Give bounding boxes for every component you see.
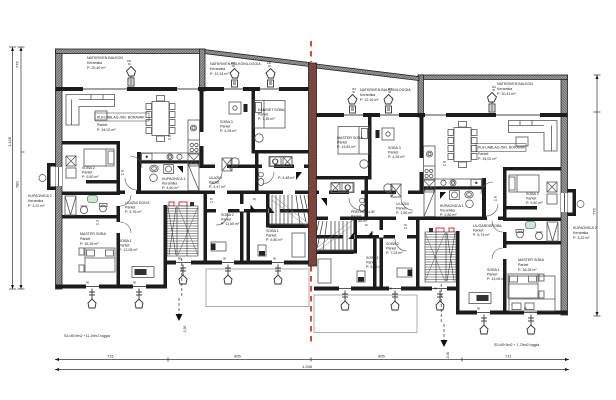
svg-text:P: 1,85 m²: P: 1,85 m² xyxy=(351,219,368,223)
svg-text:90: 90 xyxy=(133,281,137,285)
svg-text:KUH./ABLAG./DN. BORAVAK: KUH./ABLAG./DN. BORAVAK xyxy=(478,146,526,150)
svg-text:Parket: Parket xyxy=(518,263,528,267)
svg-text:P: 4,28 m²: P: 4,28 m² xyxy=(220,129,237,133)
svg-text:P: 4,48 m²: P: 4,48 m² xyxy=(278,176,295,180)
svg-text:SOBA 2: SOBA 2 xyxy=(526,192,539,196)
svg-text:P: 4,60 m²: P: 4,60 m² xyxy=(162,186,179,190)
svg-text:S2=89,9m2 +11,19m2 loggia: S2=89,9m2 +11,19m2 loggia xyxy=(64,334,110,338)
svg-text:Parket: Parket xyxy=(119,244,129,248)
svg-text:SOBA 1: SOBA 1 xyxy=(366,256,379,260)
svg-text:P: 11,50 m²: P: 11,50 m² xyxy=(221,222,240,226)
svg-text:P: 7,24 m²: P: 7,24 m² xyxy=(386,251,403,255)
svg-text:Parket: Parket xyxy=(386,247,396,251)
svg-text:1.245: 1.245 xyxy=(302,364,313,369)
svg-text:776: 776 xyxy=(15,61,20,68)
svg-text:Parket: Parket xyxy=(125,206,135,210)
svg-text:Keramika: Keramika xyxy=(87,61,102,65)
svg-text:SOBA 1: SOBA 1 xyxy=(119,239,132,243)
svg-text:P: 3,47 m²: P: 3,47 m² xyxy=(209,185,226,189)
svg-text:P: 6,74 m²: P: 6,74 m² xyxy=(473,233,490,237)
svg-text:P: 7,35 m²: P: 7,35 m² xyxy=(258,117,275,121)
svg-text:P: 9,50 m²: P: 9,50 m² xyxy=(526,201,543,205)
svg-text:P: 16,28 m²: P: 16,28 m² xyxy=(518,268,537,272)
svg-text:Keramika: Keramika xyxy=(497,87,512,91)
svg-text:Parket: Parket xyxy=(266,234,276,238)
svg-text:NATKRIVEN BALKON: NATKRIVEN BALKON xyxy=(87,56,123,60)
svg-text:Keramika: Keramika xyxy=(210,67,225,71)
svg-text:Parket: Parket xyxy=(478,152,488,156)
svg-text:Keramika: Keramika xyxy=(573,231,588,235)
svg-text:Parket: Parket xyxy=(526,197,536,201)
svg-text:90: 90 xyxy=(524,307,528,311)
svg-text:KUH./ABLAG./DN. BORAVAK: KUH./ABLAG./DN. BORAVAK xyxy=(97,116,145,120)
svg-text:Parket: Parket xyxy=(388,151,398,155)
svg-text:SOBA 2: SOBA 2 xyxy=(386,242,399,246)
svg-text:P: 12,34 m²: P: 12,34 m² xyxy=(210,72,229,76)
svg-text:MASTER SOBA: MASTER SOBA xyxy=(337,136,364,140)
svg-text:P: 20,40 m²: P: 20,40 m² xyxy=(87,66,106,70)
svg-text:MASTER SOBA: MASTER SOBA xyxy=(518,258,545,262)
svg-text:Parket: Parket xyxy=(221,218,231,222)
svg-text:-0,90: -0,90 xyxy=(446,352,450,359)
svg-text:SOBA 1: SOBA 1 xyxy=(487,268,500,272)
svg-text:P: 3,22 m²: P: 3,22 m² xyxy=(573,236,590,240)
svg-text:P: 13,83 m²: P: 13,83 m² xyxy=(337,145,356,149)
svg-text:P: 34,02 m²: P: 34,02 m² xyxy=(478,157,497,161)
svg-text:PREDSOBLJE: PREDSOBLJE xyxy=(351,210,375,214)
svg-text:Parket: Parket xyxy=(366,261,376,265)
svg-text:Parket: Parket xyxy=(97,123,107,127)
svg-text:Parket: Parket xyxy=(82,171,92,175)
svg-text:Keramika: Keramika xyxy=(440,209,455,213)
svg-text:P: 13,06 m²: P: 13,06 m² xyxy=(487,277,506,281)
svg-text:711: 711 xyxy=(505,354,512,359)
svg-text:P: 2,80 m²: P: 2,80 m² xyxy=(440,213,457,217)
svg-text:Parket: Parket xyxy=(220,125,230,129)
svg-text:Parket: Parket xyxy=(80,237,90,241)
svg-text:90: 90 xyxy=(178,257,182,261)
svg-text:P: 34,02 m²: P: 34,02 m² xyxy=(97,128,116,132)
svg-text:P: 1,50 m²: P: 1,50 m² xyxy=(396,211,413,215)
svg-text:ULAZNI: ULAZNI xyxy=(396,202,409,206)
svg-text:P: 12,16 m²: P: 12,16 m² xyxy=(360,98,379,102)
svg-text:905: 905 xyxy=(234,354,241,359)
svg-text:P: 9,08 m²: P: 9,08 m² xyxy=(366,265,383,269)
svg-text:NATKRIVEN BALKON/LOGGIA: NATKRIVEN BALKON/LOGGIA xyxy=(360,88,411,92)
svg-text:Parket: Parket xyxy=(473,229,483,233)
svg-text:KUPAONICA 2: KUPAONICA 2 xyxy=(573,226,597,230)
svg-text:S2=89,9m2 + 1,79m2 loggia: S2=89,9m2 + 1,79m2 loggia xyxy=(494,343,539,347)
svg-text:715: 715 xyxy=(107,354,114,359)
svg-text:NATKRIVEN BALKON: NATKRIVEN BALKON xyxy=(497,82,533,86)
svg-text:KUPAONICA 2: KUPAONICA 2 xyxy=(28,194,52,198)
svg-text:P: 13,06 m²: P: 13,06 m² xyxy=(119,248,138,252)
svg-text:P: 16,28 m²: P: 16,28 m² xyxy=(80,242,99,246)
svg-text:MASTER SOBA: MASTER SOBA xyxy=(80,232,107,236)
svg-text:P: 5,76 m²: P: 5,76 m² xyxy=(125,210,142,214)
svg-text:P: 9,50 m²: P: 9,50 m² xyxy=(82,175,99,179)
svg-text:SOBA 2: SOBA 2 xyxy=(82,166,95,170)
svg-text:KABINET SOBA: KABINET SOBA xyxy=(258,108,285,112)
svg-text:SOBA 1: SOBA 1 xyxy=(266,229,279,233)
svg-text:Parket: Parket xyxy=(351,215,361,219)
svg-text:90: 90 xyxy=(273,257,277,261)
svg-text:P: 9,80 m²: P: 9,80 m² xyxy=(266,238,283,242)
svg-text:90: 90 xyxy=(389,287,393,291)
svg-text:Parket: Parket xyxy=(487,273,497,277)
svg-text:Keramika: Keramika xyxy=(28,199,43,203)
svg-text:776: 776 xyxy=(592,208,597,215)
svg-text:SOBA 3: SOBA 3 xyxy=(388,146,401,150)
svg-text:UL/GARDEROBA: UL/GARDEROBA xyxy=(473,224,502,228)
svg-text:90: 90 xyxy=(86,281,90,285)
svg-text:ULAZNI: ULAZNI xyxy=(209,176,222,180)
svg-text:Parket: Parket xyxy=(258,113,268,117)
svg-text:P: 30,41 m²: P: 30,41 m² xyxy=(497,92,516,96)
svg-text:KUPAONICA 1: KUPAONICA 1 xyxy=(440,204,464,208)
svg-text:780: 780 xyxy=(15,181,20,188)
svg-text:90: 90 xyxy=(434,287,438,291)
svg-text:Keramika: Keramika xyxy=(162,182,177,186)
svg-text:905: 905 xyxy=(378,354,385,359)
svg-text:Parket: Parket xyxy=(396,207,406,211)
svg-text:Keramika: Keramika xyxy=(360,93,375,97)
svg-text:90: 90 xyxy=(477,307,481,311)
svg-text:90: 90 xyxy=(223,257,227,261)
svg-text:P: 3,22 m²: P: 3,22 m² xyxy=(28,204,45,208)
svg-text:90: 90 xyxy=(335,287,339,291)
svg-text:KUPAONICA 1: KUPAONICA 1 xyxy=(162,177,186,181)
svg-text:NATKRIVEN BALKON/LOGGIA: NATKRIVEN BALKON/LOGGIA xyxy=(210,62,261,66)
svg-text:Parket: Parket xyxy=(209,181,219,185)
svg-text:ULAZNI DONJI: ULAZNI DONJI xyxy=(125,201,150,205)
svg-text:1.128: 1.128 xyxy=(7,136,12,147)
svg-text:SOBA 2: SOBA 2 xyxy=(221,213,234,217)
svg-text:SOBA 3: SOBA 3 xyxy=(220,120,233,124)
svg-text:-0,90: -0,90 xyxy=(183,326,187,333)
svg-text:P: 4,25 m²: P: 4,25 m² xyxy=(388,155,405,159)
svg-text:Parket: Parket xyxy=(337,141,347,145)
